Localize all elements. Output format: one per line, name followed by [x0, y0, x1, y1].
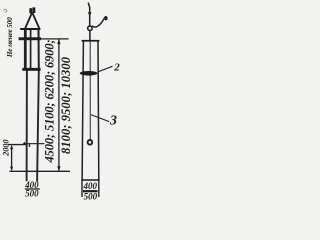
svg-text:2000: 2000	[2, 139, 11, 157]
svg-text:2: 2	[113, 61, 120, 73]
svg-text:400: 400	[83, 181, 98, 191]
svg-text:500: 500	[25, 189, 39, 199]
svg-text:4500; 5100; 6200; 6900;: 4500; 5100; 6200; 6900;	[43, 39, 57, 163]
svg-text:3: 3	[109, 114, 117, 129]
svg-text:500: 500	[84, 191, 98, 201]
svg-text:Не менее 500: Не менее 500	[5, 17, 14, 58]
svg-text:8100; 9500; 10300: 8100; 9500; 10300	[59, 56, 73, 154]
